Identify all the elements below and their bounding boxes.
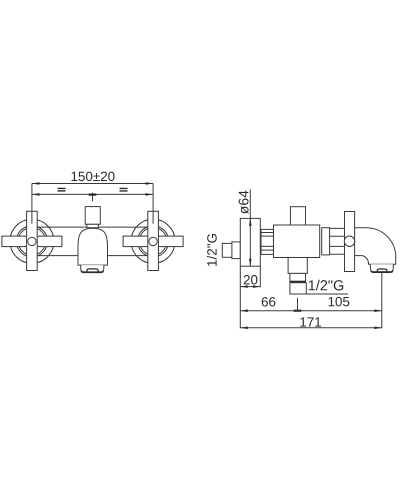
node arrow right of 20	[253, 285, 260, 288]
wire dimension line 171	[240, 327, 381, 329]
wire 1/2"G underline leader	[306, 293, 348, 295]
value label 20	[244, 275, 258, 284]
node inlet nipple inner part	[232, 242, 240, 259]
wire body tube top edge	[37, 226, 147, 228]
wire body tube bottom edge	[37, 255, 147, 257]
node arrow left of 171	[240, 327, 248, 330]
node arrow left of 66	[240, 309, 248, 312]
node handle hub circle side view	[344, 236, 354, 246]
node arrow right of symmetry line	[146, 193, 154, 196]
node left cross handle horizontal arm	[2, 236, 62, 247]
wire ø64 leader line	[249, 189, 251, 266]
node shower outlet middle section	[290, 273, 306, 282]
node shower outlet upper section	[288, 258, 307, 274]
node right escutcheon ring 2	[139, 228, 167, 256]
wire spout tip leader line	[381, 272, 383, 328]
node arrow down ø64	[249, 259, 252, 267]
node arrow left of 150±20	[32, 182, 40, 185]
node spout aerator bump	[377, 269, 387, 272]
node spout dome front	[78, 228, 108, 265]
value label 1/2"G outlet	[309, 280, 343, 291]
node shower outlet middle thick bottom	[290, 281, 306, 283]
node equality mark right	[120, 188, 128, 191]
node right cross handle vertical stem	[148, 211, 159, 270]
node left cross handle vertical stem	[27, 211, 38, 270]
wire union nut facet lines	[261, 233, 274, 251]
wire dimension line 20	[240, 286, 260, 288]
node outlet split bold bar	[294, 310, 302, 312]
wire outlet center extension line	[297, 298, 299, 311]
value label 171	[300, 317, 321, 326]
wire dimension line 150±20	[32, 183, 153, 185]
node cartridge connector	[322, 228, 330, 255]
node equality mark left	[58, 188, 66, 191]
node left escutcheon ring 2	[18, 228, 46, 256]
wire stem lines to handle	[330, 228, 345, 254]
node handle bar side view	[345, 212, 355, 272]
wire wall extension line bottom	[239, 266, 241, 328]
node arrow right of 150±20	[146, 182, 154, 185]
node valve body side view	[274, 225, 320, 258]
node arrow left of 20	[240, 285, 248, 288]
value label 1/2"G inlet rotated	[207, 234, 217, 266]
wire right dimension extension line	[152, 184, 154, 224]
value label ø64 rotated	[239, 190, 249, 213]
node diverter knob front	[85, 207, 100, 225]
node left escutcheon outer circle	[10, 219, 54, 263]
node arrow right of 105	[374, 309, 382, 312]
node right escutcheon outer circle	[131, 219, 175, 263]
node union nut	[261, 229, 274, 254]
node arrow right of 171	[374, 327, 382, 330]
node aerator insert bump front	[87, 269, 98, 272]
node center tick mark	[92, 193, 94, 202]
node knob neck front	[87, 224, 98, 227]
wire flange 20 extension line	[259, 266, 261, 287]
node diverter knob side view	[290, 207, 305, 225]
node center tick bold bar	[89, 194, 97, 196]
node aerator cup front	[81, 265, 104, 272]
wire symmetry dimension line	[32, 193, 153, 195]
wire left dimension extension line	[31, 184, 33, 224]
node right cross handle horizontal arm	[123, 236, 183, 247]
node aerator cup front bottom thick edge	[81, 271, 103, 272]
node shower outlet nut section	[290, 283, 306, 294]
node right handle hub circle	[149, 237, 157, 245]
wire dimension line 66 and 105	[240, 310, 381, 312]
node arrow left of symmetry line	[32, 193, 40, 196]
node spout tip cup	[370, 264, 393, 272]
node inlet nipple outer part	[222, 243, 232, 257]
node spout side view	[354, 228, 396, 264]
node left handle hub circle	[28, 237, 36, 245]
node wall flange side view	[240, 218, 260, 266]
node right escutcheon ring 1	[138, 226, 169, 257]
value label 105	[329, 297, 350, 306]
value label 66	[262, 297, 276, 306]
node spout tip thick bottom edge	[371, 271, 393, 272]
value label 150±20	[72, 172, 115, 181]
node left escutcheon ring 1	[16, 226, 47, 257]
node arrow up ø64	[249, 218, 252, 226]
